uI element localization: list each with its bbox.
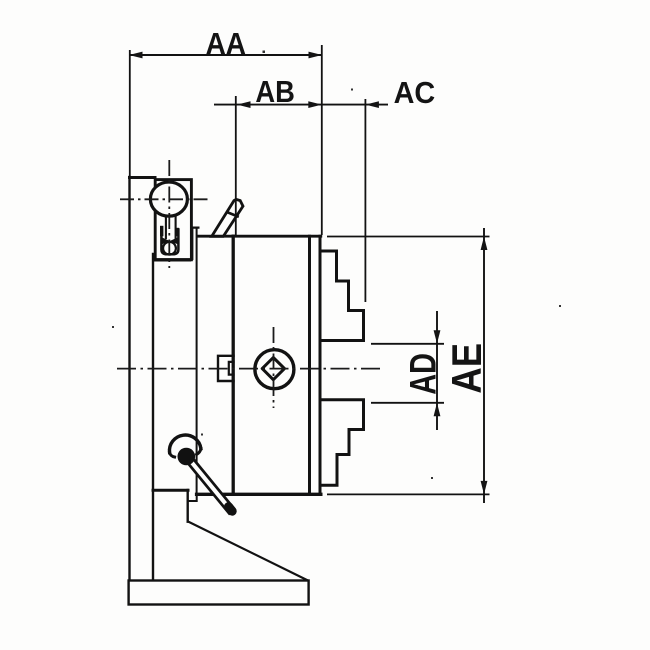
clamp block	[155, 180, 191, 260]
AB left extension line	[235, 96, 237, 236]
notch to backplate	[188, 494, 197, 501]
AE bottom arrow	[481, 481, 488, 495]
AB/AC dimension line	[214, 104, 388, 106]
bottom lever knob (filled)	[178, 448, 196, 466]
top lever (clamp handle on chuck)	[212, 199, 243, 236]
AE top arrow	[481, 237, 488, 251]
T-key on chuck back	[218, 356, 234, 381]
chuck bottom edge	[197, 493, 321, 496]
top jaw stepped profile	[321, 251, 364, 341]
main horizontal centerline	[117, 368, 381, 370]
AB left arrow	[237, 101, 251, 108]
chuck vertical centerline	[273, 327, 275, 408]
AA right arrow	[309, 52, 323, 59]
dimension lines	[129, 45, 490, 503]
bottom lever tip blob	[229, 507, 233, 512]
chuck body front edge	[308, 236, 311, 494]
gusset diagonal	[188, 522, 308, 581]
svg-text:AD: AD	[402, 353, 444, 395]
AD top arrow (outside, pointing down)	[434, 330, 441, 344]
tab (rim clamped)	[192, 228, 198, 259]
AD bottom arrow (outside, pointing up)	[434, 403, 441, 417]
bottom lever shaft	[187, 458, 234, 513]
AA left extension line	[129, 50, 131, 177]
clamp horizontal centerline	[120, 198, 209, 200]
backplate left edge	[196, 228, 198, 495]
bottom jaw stepped profile	[322, 400, 364, 486]
AE bottom extension line	[327, 493, 490, 495]
base plate	[129, 581, 309, 605]
clamp handwheel circle	[150, 182, 187, 216]
shelf under chuck	[153, 489, 188, 492]
bolt U-bracket	[161, 228, 178, 255]
scan speckles	[112, 51, 561, 480]
AB right arrow	[308, 101, 322, 108]
bottom lever knob housing arc	[169, 435, 200, 453]
AA/AB/AC right extension line	[321, 45, 323, 235]
svg-text:AA: AA	[206, 26, 246, 61]
AE top extension line	[327, 236, 490, 238]
AD top extension line	[371, 343, 444, 345]
chuck top edge	[198, 235, 320, 238]
arrowheads	[129, 52, 487, 495]
svg-text:AE: AE	[443, 343, 490, 394]
top lever cap line	[228, 213, 238, 217]
svg-text:AC: AC	[394, 75, 436, 110]
AD bottom extension line	[371, 402, 444, 404]
clamp block bottom thick edge	[154, 258, 190, 261]
AA left arrow	[129, 52, 143, 59]
AC outside arrow	[365, 101, 379, 108]
chuck centre boss circle	[255, 350, 294, 389]
bolt bowtie	[163, 238, 178, 244]
square drive diamond	[262, 358, 284, 380]
column cap top edge	[130, 176, 156, 179]
chuck body back edge	[232, 236, 235, 494]
svg-text:AB: AB	[255, 74, 295, 109]
AD dimension line	[436, 311, 438, 430]
AC extension line	[364, 99, 366, 302]
AE dimension line	[483, 228, 485, 503]
centerlines	[117, 160, 381, 408]
clamp vertical centerline	[168, 160, 170, 268]
bolt collar bars	[160, 228, 163, 235]
clamp bolt shaft	[165, 217, 167, 238]
bolt nose circle	[163, 242, 176, 255]
AA dimension line	[129, 54, 322, 56]
column (vertical support body)	[128, 177, 130, 580]
face plate front edge	[319, 236, 322, 494]
